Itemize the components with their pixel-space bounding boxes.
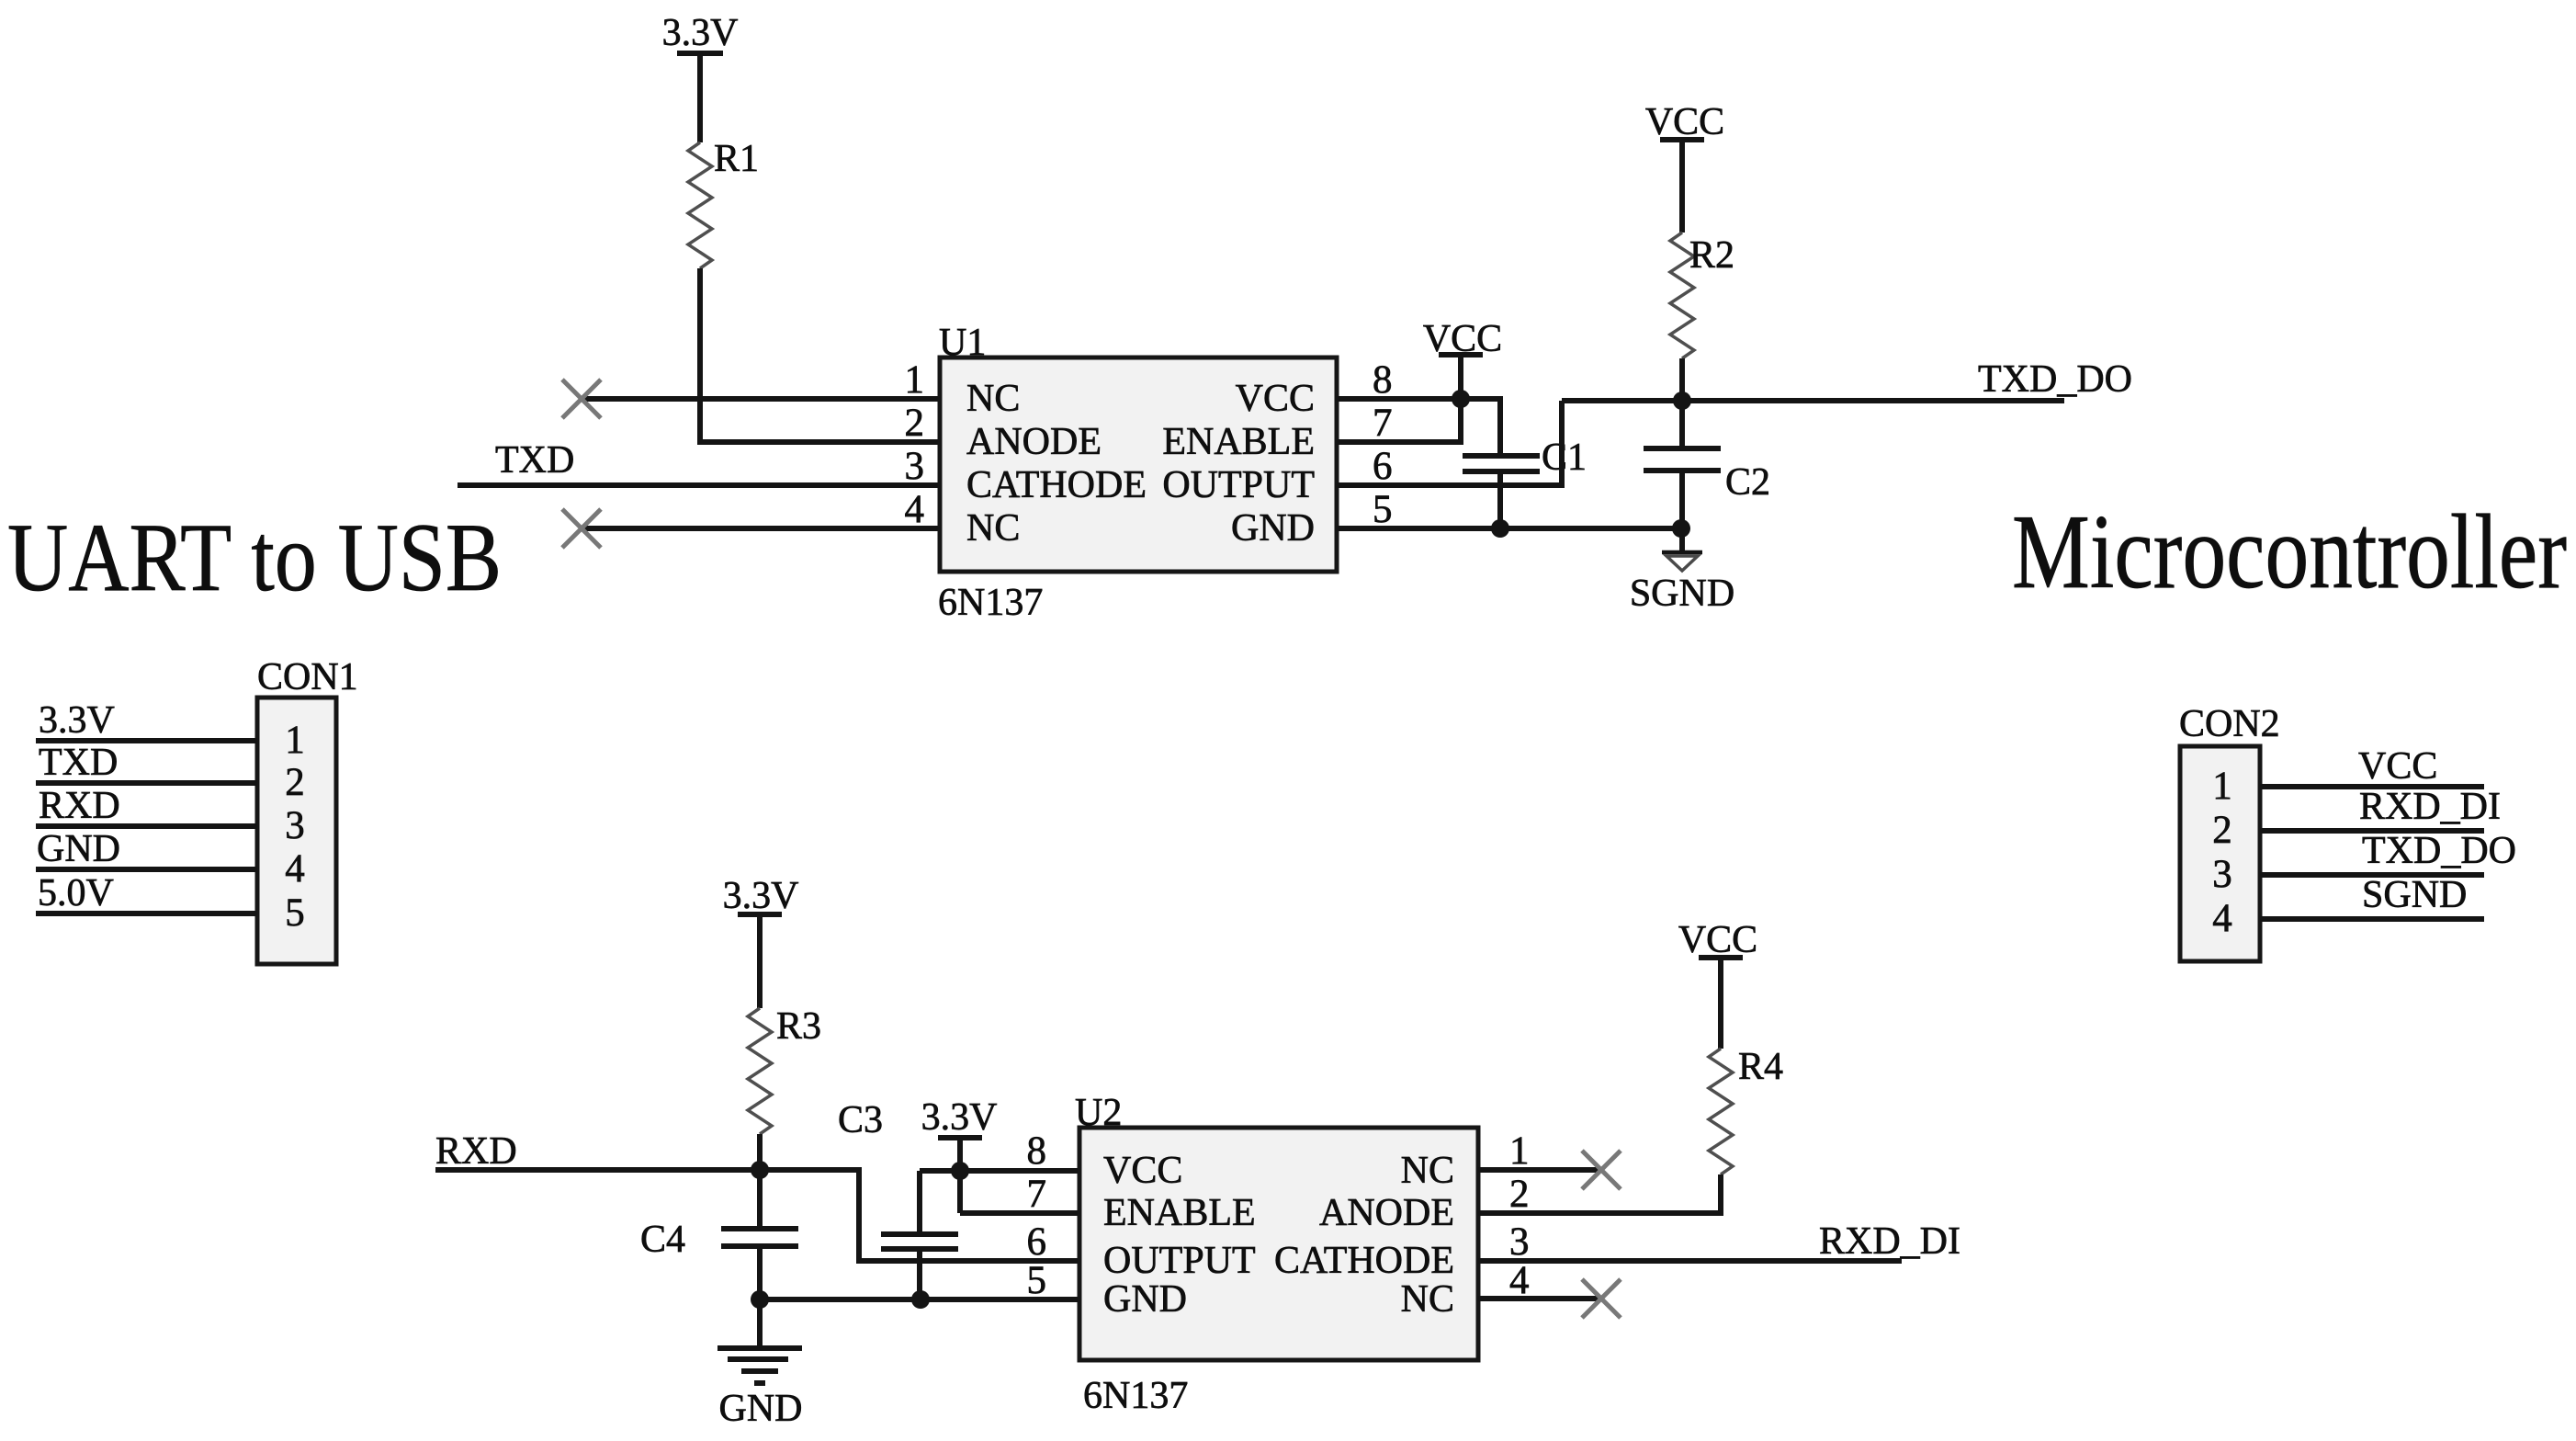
svg-text:CON2: CON2	[2179, 703, 2280, 745]
connector CON1	[257, 656, 358, 964]
svg-text:RXD: RXD	[39, 785, 120, 827]
svg-text:ENABLE: ENABLE	[1103, 1192, 1256, 1234]
svg-text:U1: U1	[939, 322, 986, 364]
svg-text:RXD: RXD	[435, 1130, 517, 1173]
svg-text:3.3V: 3.3V	[723, 875, 799, 917]
wire U2 pin7 ENABLE	[960, 1210, 1079, 1216]
svg-text:CATHODE: CATHODE	[966, 464, 1147, 506]
svg-text:1: 1	[285, 719, 305, 762]
svg-text:GND: GND	[1103, 1278, 1187, 1321]
svg-text:NC: NC	[966, 507, 1020, 550]
svg-text:2: 2	[285, 761, 305, 804]
power symbol 3.3V (R1 top)	[662, 12, 739, 142]
svg-text:R3: R3	[776, 1005, 821, 1048]
svg-text:3.3V: 3.3V	[921, 1096, 998, 1139]
svg-text:U2: U2	[1075, 1092, 1122, 1134]
svg-text:2: 2	[1509, 1173, 1530, 1216]
svg-text:C3: C3	[838, 1099, 883, 1141]
svg-text:NC: NC	[1401, 1150, 1454, 1192]
svg-text:OUTPUT: OUTPUT	[1103, 1240, 1256, 1282]
node junction R3/RXD	[751, 1161, 769, 1179]
svg-text:R1: R1	[714, 138, 759, 180]
wire R3 to RXD net	[757, 1134, 763, 1170]
svg-text:4: 4	[905, 488, 925, 531]
svg-text:6: 6	[1373, 445, 1393, 488]
svg-text:ENABLE: ENABLE	[1162, 421, 1315, 463]
svg-text:SGND: SGND	[1630, 573, 1734, 615]
wire CON2 pin4	[2260, 916, 2484, 922]
wire CON2 pin2	[2260, 828, 2484, 834]
svg-text:VCC: VCC	[1236, 378, 1315, 420]
svg-text:3: 3	[2212, 853, 2232, 896]
wire CON1 pin5	[36, 911, 257, 916]
svg-text:SGND: SGND	[2362, 874, 2467, 916]
resistor R2	[1670, 233, 1734, 358]
svg-text:4: 4	[2212, 897, 2232, 940]
power symbol 3.3V (U2 VCC)	[921, 1096, 998, 1213]
svg-text:1: 1	[2212, 765, 2232, 808]
svg-text:TXD_DO: TXD_DO	[2362, 830, 2516, 872]
svg-text:5.0V: 5.0V	[38, 872, 114, 914]
svg-text:4: 4	[1509, 1259, 1530, 1302]
U1 pin names	[966, 378, 1315, 550]
svg-text:R2: R2	[1689, 234, 1734, 277]
wire CON2 pin3	[2260, 872, 2484, 878]
svg-text:5: 5	[285, 891, 305, 935]
svg-text:6N137: 6N137	[938, 582, 1043, 624]
power symbol VCC (R4 top)	[1678, 919, 1757, 1049]
wire U2 pin1 stub	[1478, 1167, 1599, 1173]
svg-text:C2: C2	[1725, 461, 1770, 504]
svg-text:OUTPUT: OUTPUT	[1162, 464, 1315, 506]
svg-text:8: 8	[1027, 1129, 1047, 1173]
wire U2 pin4 stub	[1478, 1296, 1599, 1301]
wire R1 to U1 pin2 (ANODE)	[700, 268, 940, 442]
svg-text:NC: NC	[1401, 1278, 1454, 1321]
svg-text:2: 2	[905, 402, 925, 445]
capacitor C1	[1463, 437, 1587, 479]
ground SGND symbol	[1630, 528, 1734, 615]
node junction 3.3V/pin8 U2	[951, 1162, 969, 1180]
svg-text:NC: NC	[966, 378, 1020, 420]
svg-text:ANODE: ANODE	[1319, 1192, 1454, 1234]
svg-text:RXD_DI: RXD_DI	[1819, 1220, 1960, 1263]
svg-text:1: 1	[1509, 1129, 1530, 1173]
wire U1 pin1 stub	[584, 396, 940, 402]
op-amp U1 (optocoupler 6N137 body)	[938, 322, 1337, 624]
resistor R3	[748, 1005, 821, 1134]
wire U2 pin3 CATHODE to RXD_DI	[1478, 1258, 1902, 1264]
node junction VCC/pin8/pin7	[1452, 390, 1470, 408]
svg-text:VCC: VCC	[2358, 745, 2437, 788]
svg-text:R4: R4	[1738, 1046, 1783, 1088]
power symbol 3.3V (R3 top)	[723, 875, 799, 1008]
no-connect X on U2 pin1	[1582, 1151, 1621, 1189]
resistor R4	[1709, 1046, 1783, 1174]
svg-text:VCC: VCC	[1103, 1150, 1182, 1192]
svg-text:8: 8	[1373, 358, 1393, 402]
wire C1 bottom to GND net	[1497, 471, 1503, 528]
connector CON2	[2179, 703, 2280, 961]
resistor R1	[688, 138, 759, 268]
svg-text:6N137: 6N137	[1083, 1375, 1188, 1417]
node junction C3/GND	[911, 1290, 930, 1309]
node junction R2/TXD_DO/C2	[1673, 391, 1691, 410]
wire CON1 pin3	[36, 823, 257, 829]
svg-text:TXD_DO: TXD_DO	[1978, 358, 2132, 401]
capacitor C3	[838, 1099, 958, 1299]
svg-text:TXD: TXD	[495, 439, 574, 482]
svg-text:6: 6	[1027, 1220, 1047, 1264]
capacitor C2	[1644, 401, 1770, 528]
node junction C4/GND	[751, 1290, 769, 1309]
U2 pin names	[1103, 1150, 1454, 1321]
wire CON2 pin1	[2260, 784, 2484, 789]
svg-text:GND: GND	[1231, 507, 1315, 550]
svg-text:Microcontroller: Microcontroller	[2012, 494, 2567, 610]
node junction C1/GND	[1491, 519, 1509, 538]
svg-text:TXD: TXD	[39, 742, 118, 784]
svg-text:C4: C4	[640, 1219, 685, 1261]
wire U1 pin7 ENABLE up to VCC	[1337, 399, 1461, 442]
no-connect X on U2 pin4	[1582, 1279, 1621, 1318]
svg-text:3.3V: 3.3V	[662, 12, 739, 54]
svg-text:2: 2	[2212, 809, 2232, 852]
wire CON1 pin4	[36, 867, 257, 872]
svg-text:3: 3	[285, 804, 305, 847]
svg-text:7: 7	[1373, 402, 1393, 445]
wire R4 to U2 pin2 ANODE	[1478, 1174, 1721, 1213]
wire U2 pin8 VCC	[920, 1168, 1079, 1174]
svg-text:4: 4	[285, 847, 305, 891]
svg-text:3: 3	[905, 445, 925, 488]
svg-text:GND: GND	[719, 1388, 803, 1430]
wire R2 to TXD_DO	[1679, 358, 1685, 401]
wire U1 pin4 stub	[584, 526, 940, 531]
wire TXD to U1 pin3	[458, 482, 940, 488]
svg-text:1: 1	[905, 358, 925, 402]
op-amp U2 (optocoupler 6N137 body)	[1075, 1092, 1478, 1417]
svg-text:5: 5	[1373, 488, 1393, 531]
wire U1 pin6 OUTPUT to TXD_DO net	[1337, 401, 1562, 485]
svg-text:3.3V: 3.3V	[39, 699, 115, 742]
svg-text:5: 5	[1027, 1259, 1047, 1302]
svg-text:CON1: CON1	[257, 656, 358, 698]
wire GND net U2	[760, 1297, 1079, 1302]
wire U1 pin8 to C1	[1337, 399, 1500, 454]
svg-text:UART to USB: UART to USB	[7, 504, 502, 611]
svg-text:GND: GND	[37, 828, 120, 870]
svg-text:3: 3	[1509, 1220, 1530, 1264]
power symbol VCC (U1 pin8)	[1423, 318, 1502, 399]
wire CON1 pin2	[36, 780, 257, 786]
wire CON1 pin1	[36, 738, 257, 743]
power symbol VCC (R2 top)	[1645, 101, 1724, 233]
no-connect X on U1 pin1	[562, 380, 601, 418]
capacitor C4	[640, 1170, 798, 1299]
svg-text:RXD_DI: RXD_DI	[2359, 786, 2501, 828]
wire TXD_DO	[1562, 398, 2064, 403]
node junction C2/SGND	[1672, 519, 1690, 538]
wire RXD to U2 pin6 OUTPUT	[435, 1170, 1079, 1261]
no-connect X on U1 pin4	[562, 509, 601, 548]
ground GND symbol	[717, 1299, 803, 1430]
svg-text:7: 7	[1027, 1173, 1047, 1216]
wire U1 pin5 GND net	[1337, 526, 1682, 531]
svg-text:CATHODE: CATHODE	[1274, 1240, 1454, 1282]
svg-text:ANODE: ANODE	[966, 421, 1102, 463]
